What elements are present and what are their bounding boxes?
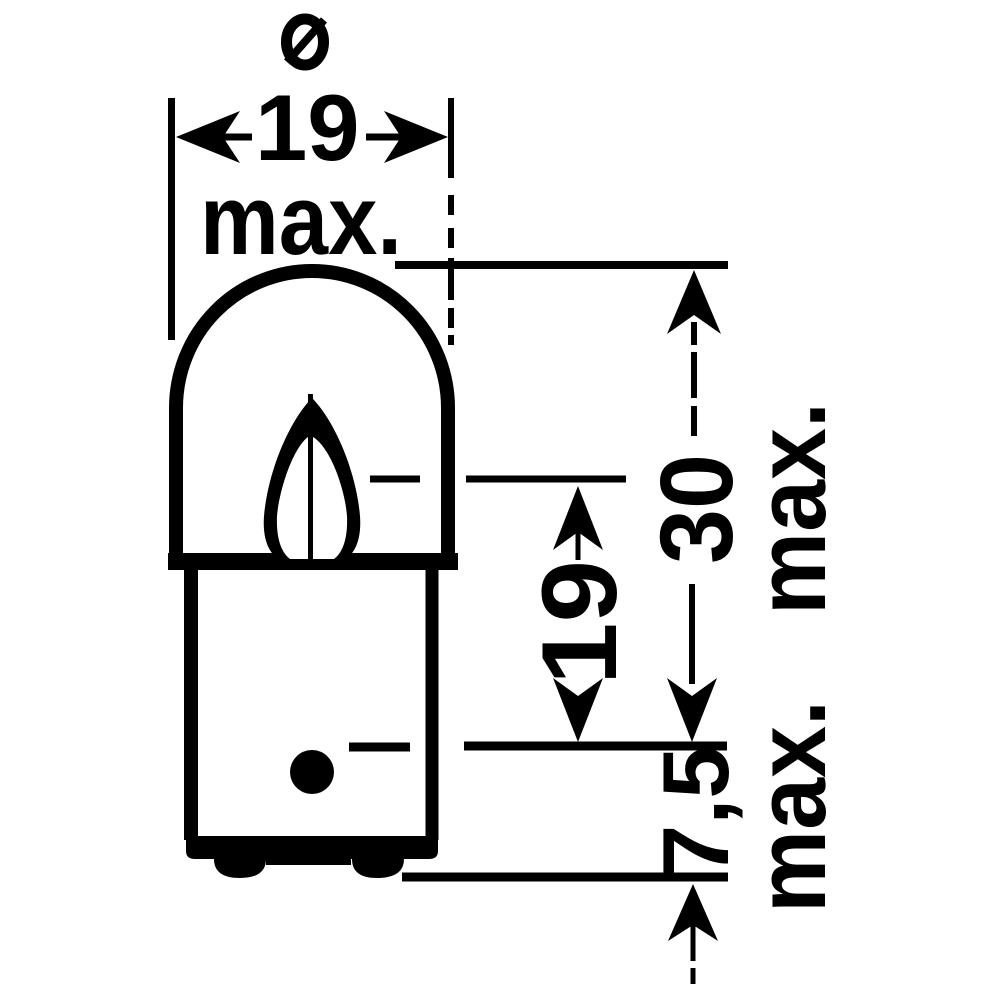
diameter symbol bbox=[287, 19, 324, 65]
base left wall bbox=[184, 570, 198, 840]
arrow left bbox=[176, 111, 240, 163]
filament leader line bbox=[370, 476, 626, 483]
bottom reference line bbox=[402, 873, 728, 882]
bulb neck bar bbox=[168, 553, 458, 570]
svg-text:max.: max. bbox=[735, 402, 846, 615]
dim 30 lower line bbox=[689, 584, 695, 684]
dim 19 upper stub bbox=[576, 532, 581, 560]
base right wall bbox=[426, 570, 439, 840]
svg-text:19: 19 bbox=[519, 560, 639, 685]
arrow left tail bbox=[223, 134, 252, 141]
contact bump web bbox=[266, 851, 351, 865]
dim 19 up arrow bbox=[553, 486, 603, 550]
extension line left bbox=[168, 98, 175, 340]
dim 30 upper line bbox=[691, 322, 697, 436]
base bottom and contact bumps bbox=[186, 836, 438, 878]
top reference line bbox=[395, 261, 728, 269]
dim 19 down arrow bbox=[553, 678, 603, 742]
dim 30 up arrow bbox=[667, 270, 721, 334]
filament inner white right bbox=[313, 437, 347, 559]
filament outer bbox=[264, 398, 361, 560]
dim 30 down arrow bbox=[667, 678, 717, 742]
contact dot bbox=[290, 750, 334, 794]
bulb dome bbox=[176, 271, 448, 561]
svg-text:7,5: 7,5 bbox=[643, 746, 748, 877]
arrow right bbox=[384, 111, 448, 163]
svg-text:max.: max. bbox=[735, 700, 846, 913]
filament center line bbox=[308, 394, 313, 558]
dim 7,5 lower line bbox=[691, 925, 696, 984]
dim 7,5 up arrow bbox=[668, 884, 718, 941]
extension line right bbox=[448, 98, 454, 345]
filament inner white left bbox=[277, 437, 308, 559]
dot leader line bbox=[349, 746, 727, 747]
svg-text:max.: max. bbox=[200, 164, 402, 275]
arrow right tail bbox=[366, 134, 401, 141]
